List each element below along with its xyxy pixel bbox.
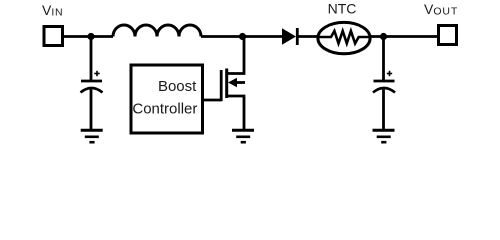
wire capacitor C1 to ground bbox=[90, 90, 93, 130]
drain connection bbox=[227, 37, 244, 74]
wire node C down to capacitor C2 bbox=[382, 37, 385, 81]
op-amp U1 boost controller box bbox=[131, 65, 203, 133]
channel bar bbox=[225, 69, 228, 99]
thermistor RT1 ellipse bbox=[318, 22, 370, 53]
ground below Q1 bbox=[232, 130, 254, 142]
wire inductor to node B bbox=[201, 35, 283, 38]
node A bbox=[87, 33, 94, 40]
inductor L1 bbox=[113, 25, 201, 37]
capacitor C2 curved plate bbox=[373, 88, 395, 93]
wire gate from controller bbox=[203, 99, 221, 102]
boost controller label bbox=[132, 78, 197, 118]
wire NTC to VOUT bbox=[370, 35, 439, 38]
node B bbox=[239, 33, 246, 40]
capacitor C2 plus sign bbox=[387, 71, 392, 76]
svg-text:VIN: VIN bbox=[42, 2, 63, 19]
ground below C1 bbox=[81, 130, 103, 142]
terminal VOUT bbox=[439, 26, 457, 45]
gate bar bbox=[220, 70, 223, 101]
ground below C2 bbox=[373, 130, 395, 142]
capacitor C1 top plate bbox=[81, 80, 102, 83]
terminal VIN bbox=[44, 27, 63, 46]
wire VIN to node A bbox=[63, 35, 114, 38]
wire node A down to capacitor C1 bbox=[90, 37, 93, 81]
label VOUT bbox=[424, 1, 458, 18]
capacitor C1 plus sign bbox=[94, 71, 99, 76]
thermistor RT1 resistor zigzag bbox=[318, 31, 371, 43]
node C bbox=[380, 33, 387, 40]
diode D1 bbox=[282, 28, 297, 45]
capacitor C2 top plate bbox=[374, 80, 395, 83]
transistor Q1 bbox=[221, 37, 245, 130]
capacitor C1 curved plate bbox=[81, 88, 103, 93]
svg-text:Boost: Boost bbox=[158, 78, 197, 95]
svg-text:Controller: Controller bbox=[132, 101, 197, 118]
wire diode to NTC bbox=[298, 35, 318, 38]
svg-text:VOUT: VOUT bbox=[424, 1, 458, 18]
label NTC bbox=[328, 1, 357, 17]
source connection bbox=[227, 96, 244, 130]
wire capacitor C2 to ground bbox=[382, 90, 385, 130]
body arrow bbox=[228, 78, 237, 87]
svg-text:NTC: NTC bbox=[328, 1, 357, 17]
label VIN bbox=[42, 2, 63, 19]
